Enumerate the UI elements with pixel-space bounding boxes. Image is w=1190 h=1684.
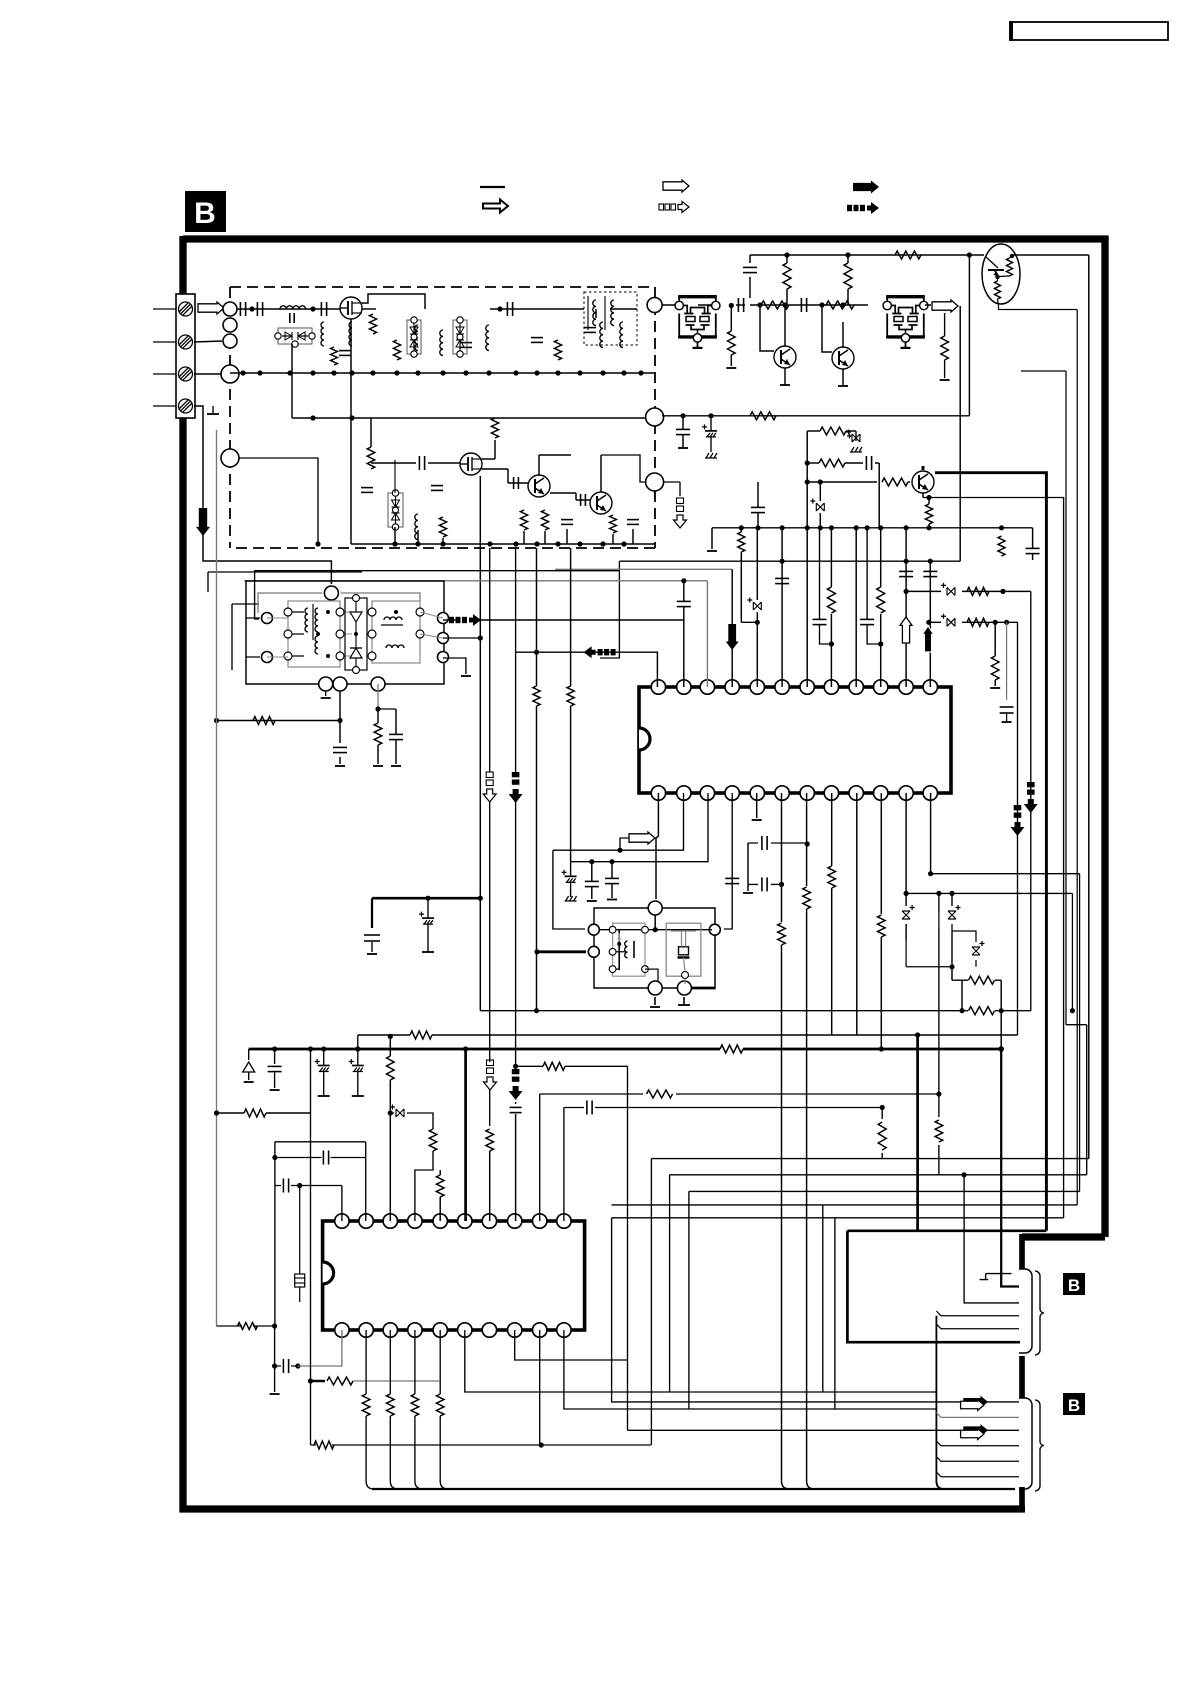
junction bbox=[936, 891, 941, 896]
wire r38 bbox=[994, 622, 996, 656]
junction bbox=[959, 1008, 964, 1013]
wire v515 long bbox=[515, 548, 517, 1104]
junction bbox=[878, 525, 883, 530]
junction bbox=[440, 370, 445, 375]
conn1 line hook bbox=[980, 1274, 1012, 1280]
junction bbox=[534, 370, 539, 375]
wire r47b bbox=[880, 937, 882, 1049]
inductor L9 bbox=[415, 514, 418, 540]
wire q5 emit bbox=[784, 368, 786, 385]
inductor L4 bbox=[415, 325, 418, 351]
wire row463 bbox=[807, 462, 819, 464]
junction bbox=[926, 495, 931, 500]
junction bbox=[440, 541, 445, 546]
junction bbox=[214, 718, 219, 723]
wire v1072 drop bbox=[1071, 893, 1073, 1010]
junction bbox=[310, 370, 315, 375]
capacitor C11 bbox=[361, 487, 373, 489]
resistor R54 bbox=[436, 1175, 444, 1197]
junction bbox=[949, 964, 954, 969]
IC2 pin 17 (bottom) bbox=[408, 1323, 422, 1337]
IC2 pin 8 (top) bbox=[508, 1214, 522, 1228]
wire r45b bbox=[807, 909, 815, 1489]
wire Q2 gate bbox=[440, 462, 460, 464]
wire c44 bbox=[748, 883, 782, 885]
junction bbox=[926, 525, 931, 530]
wire y1113 row bbox=[217, 1112, 245, 1114]
wire bus A y1035 bbox=[358, 1034, 1018, 1036]
wire pin8 riser bbox=[830, 528, 832, 587]
junction bbox=[617, 848, 622, 853]
wire screw4 link bbox=[194, 406, 203, 440]
node E bbox=[646, 408, 664, 426]
resistor R9 bbox=[541, 510, 548, 530]
junction bbox=[287, 370, 292, 375]
conn1 line 4 bbox=[936, 1311, 1019, 1316]
wire r61 grey bbox=[353, 1380, 439, 1382]
junction bbox=[589, 859, 594, 864]
hatch c25 bbox=[852, 434, 860, 442]
wire h3 nest bbox=[689, 1190, 1080, 1192]
wire y1157 row bbox=[275, 1157, 366, 1159]
junction bbox=[936, 1091, 941, 1096]
wire v882 res bbox=[881, 1108, 883, 1159]
wire y893 952 bbox=[951, 893, 953, 906]
wire y415 row bbox=[662, 415, 969, 417]
wire p12 drop bbox=[1017, 622, 1019, 1035]
conn2 line 3 bbox=[628, 1429, 1020, 1431]
junction bbox=[818, 479, 823, 484]
junction bbox=[1004, 620, 1009, 625]
junction bbox=[904, 559, 909, 564]
IC2 pin 19 (bottom) bbox=[359, 1323, 373, 1337]
capacitor C4 bbox=[339, 350, 351, 352]
capacitor C30 bbox=[677, 600, 691, 602]
junction bbox=[780, 559, 785, 564]
IC1 pin 22 (bottom) bbox=[700, 786, 714, 800]
IC1 pin 24 (bottom) bbox=[651, 786, 665, 800]
polarized cap D6 bbox=[947, 587, 955, 595]
wire p11 drop bbox=[1030, 591, 1032, 1010]
wire R5 top bbox=[370, 418, 372, 447]
electrolytic C23 bbox=[710, 416, 712, 431]
capacitor C43 bbox=[761, 836, 763, 850]
wire y620 row bbox=[481, 619, 684, 621]
junction bbox=[782, 302, 787, 307]
electrolytic C46 bbox=[323, 1049, 325, 1066]
wire c30 bbox=[683, 581, 685, 601]
capacitor C40 bbox=[585, 880, 599, 882]
wire blkA inner bbox=[267, 612, 443, 657]
polarized cap D10 bbox=[948, 905, 961, 919]
wire pin7b riser bbox=[806, 793, 808, 886]
wire v917 thick bbox=[916, 1035, 919, 1231]
junction bbox=[609, 859, 614, 864]
resistor R43 bbox=[533, 686, 540, 706]
wire q8 emitter bbox=[922, 493, 924, 498]
IC1 pin 17 (bottom) bbox=[824, 786, 838, 800]
IC1 pin 8 (top) bbox=[824, 680, 838, 694]
wire pin1b bbox=[656, 793, 658, 899]
capacitor C49 bbox=[322, 1151, 324, 1165]
wire v274 drop bbox=[274, 1326, 276, 1392]
wire oval right bbox=[1012, 254, 1089, 256]
capacitor C36 bbox=[1000, 706, 1014, 708]
wire p11b2 bbox=[905, 924, 907, 940]
junction bbox=[805, 479, 810, 484]
junction bbox=[534, 949, 539, 954]
IC1 pin 1 (top) bbox=[651, 680, 665, 694]
junction bbox=[1070, 1008, 1075, 1013]
wire v372 thick bbox=[371, 898, 373, 928]
wire grey c36 bbox=[1006, 622, 1008, 700]
inductor L2 bbox=[321, 322, 324, 346]
ground bus end bbox=[711, 528, 713, 549]
signal arrow down on p12 drop bbox=[1014, 805, 1022, 810]
wire y1066 row bbox=[516, 1065, 628, 1067]
capacitor C9 bbox=[584, 327, 596, 329]
resistor R1 bbox=[331, 347, 338, 365]
capacitor C15 bbox=[561, 519, 573, 521]
wire v1077 drop bbox=[1076, 310, 1078, 1205]
resistor R51 bbox=[387, 1056, 395, 1080]
detector diodes D8 bbox=[345, 598, 367, 670]
signal arrow down on p11 drop bbox=[1027, 782, 1035, 787]
node stack 3 bbox=[223, 334, 237, 348]
wire v1086 top bbox=[1086, 1025, 1088, 1175]
CN1 screw terminal 3 bbox=[179, 367, 193, 381]
wire pin12 riser bbox=[929, 561, 931, 687]
CN1 screw terminal 1 bbox=[179, 302, 193, 316]
wire p11 net bbox=[906, 590, 941, 592]
resistor R38 bbox=[991, 656, 999, 680]
wire Q1 drain top bbox=[362, 294, 425, 309]
resistor R58 bbox=[878, 1122, 886, 1150]
ground q5 bbox=[780, 384, 790, 386]
resistor R32 bbox=[998, 536, 1005, 556]
node blkB bot2 bbox=[677, 981, 691, 995]
op-amp IC1 body bbox=[639, 687, 951, 793]
wire r28 bbox=[845, 462, 863, 464]
junction bbox=[321, 1046, 326, 1051]
wire v669 nest bbox=[669, 1175, 671, 1392]
IC2 pin 11 (bottom) bbox=[557, 1323, 571, 1337]
junction bbox=[308, 1378, 313, 1383]
IC2 pin 5 (top) bbox=[433, 1214, 447, 1228]
junction bbox=[216, 1325, 218, 1327]
wire pin11b riser bbox=[905, 793, 907, 906]
wire v688 nest bbox=[688, 1191, 690, 1409]
wire pin3b drop2 bbox=[390, 1330, 398, 1489]
FET Q1 bbox=[340, 297, 362, 319]
wire IF row bbox=[662, 304, 679, 306]
wire p3 drop grey bbox=[377, 684, 379, 709]
junction bbox=[904, 891, 909, 896]
junction bbox=[928, 559, 933, 564]
wire pin5 riser bbox=[756, 528, 758, 600]
wire y1107 row bbox=[564, 1107, 882, 1109]
resistor R25 bbox=[895, 251, 921, 259]
conn2 line 5 bbox=[936, 1457, 1019, 1462]
varactor block D2 bbox=[407, 320, 421, 354]
wire d14 net bbox=[415, 1151, 433, 1221]
wire blkB thick bot bbox=[691, 987, 715, 990]
junction bbox=[600, 541, 605, 546]
wire v1090 bbox=[1088, 255, 1090, 1159]
IC1 pin 7 (top) bbox=[800, 680, 814, 694]
capacitor C16 bbox=[627, 519, 639, 521]
junction bbox=[878, 641, 883, 646]
node blkA bot3 bbox=[371, 677, 385, 691]
wire pin10b riser bbox=[880, 793, 882, 914]
resistor R10 bbox=[610, 515, 617, 533]
resistor R26 bbox=[750, 412, 776, 420]
wire pin6b riser bbox=[781, 793, 783, 922]
wire c32 link bbox=[820, 528, 832, 644]
junction bbox=[998, 1046, 1004, 1052]
wire y873 row bbox=[931, 873, 1080, 875]
section label B (connector CN3) bbox=[1063, 1393, 1085, 1415]
capacitor C24 bbox=[676, 428, 690, 430]
wire v808 column bbox=[806, 431, 808, 687]
resistor R37 bbox=[967, 618, 989, 626]
signal arrow down sq (node F) bbox=[677, 498, 684, 504]
node blkB right bbox=[709, 924, 720, 935]
wire v651 nest bbox=[650, 1159, 652, 1445]
wire r44b bbox=[782, 945, 790, 1489]
junction bbox=[779, 882, 784, 887]
wire pin4 riser bbox=[731, 569, 733, 687]
wire r48 links bbox=[952, 979, 1001, 981]
ground c41 bbox=[565, 896, 577, 901]
wire c29 bbox=[1032, 528, 1034, 548]
wire pin3 riser grey bbox=[706, 581, 708, 687]
resistor R5 bbox=[367, 447, 375, 469]
riser x936 conn bbox=[936, 1316, 944, 1489]
inductor L1 bbox=[280, 306, 306, 309]
conn2 arrow 1 bbox=[963, 1396, 988, 1408]
mpx arrow out bbox=[469, 614, 481, 626]
junction bbox=[392, 541, 397, 546]
wire y1141 row bbox=[275, 1141, 366, 1143]
wire h6 nest thick bbox=[847, 1229, 1046, 1232]
polarized cap D7 bbox=[947, 618, 955, 626]
wire q6 base bbox=[822, 305, 832, 352]
op-amp IC2 body bbox=[323, 1221, 585, 1330]
wire blkB thick feed bbox=[537, 950, 586, 953]
junction bbox=[600, 370, 605, 375]
resistor R24 bbox=[844, 263, 852, 289]
wire pin11 riser bbox=[905, 528, 907, 687]
wire grey y569 bbox=[555, 568, 732, 570]
wire c27 bbox=[819, 482, 821, 501]
junction bbox=[388, 1110, 393, 1115]
wire blk bottom bbox=[341, 1186, 343, 1222]
junction bbox=[513, 370, 518, 375]
oscillator dotted box bbox=[584, 292, 637, 345]
wire pin10 riser bbox=[880, 528, 882, 587]
conn2 line 2 bbox=[936, 1413, 1019, 1418]
wire y1445 row bbox=[311, 1444, 651, 1446]
resistor R57 bbox=[647, 1090, 673, 1098]
wire c53x bbox=[275, 1365, 298, 1367]
capacitor C38 bbox=[389, 733, 403, 735]
wire pin9b route bbox=[539, 1330, 541, 1445]
transistor Q6 bbox=[832, 347, 854, 369]
junction bbox=[331, 370, 336, 375]
node B (gnd in) bbox=[221, 365, 239, 383]
capacitor C53 bbox=[282, 1359, 284, 1373]
junction bbox=[513, 1064, 518, 1069]
junction bbox=[638, 370, 643, 375]
wire v297 to1366 bbox=[297, 1270, 299, 1366]
wire v938 res bbox=[938, 927, 940, 1175]
IC2 pin 20 (bottom) bbox=[335, 1323, 349, 1337]
title box (top right) bbox=[1011, 22, 1168, 40]
ground c23 bbox=[705, 453, 717, 458]
IC2 pin 2 (top) bbox=[359, 1214, 373, 1228]
wire v310 bbox=[310, 1340, 312, 1445]
resistor R22 bbox=[728, 331, 736, 355]
wire gnd bus (front-end) bbox=[230, 372, 655, 374]
wire q2 drain bbox=[482, 458, 495, 460]
junction bbox=[478, 635, 483, 640]
node D (IF out) bbox=[647, 298, 662, 313]
resistor R7 bbox=[491, 418, 498, 438]
wire r22 bbox=[730, 306, 732, 332]
wire y570 row bbox=[255, 571, 620, 619]
wire blkA out bbox=[443, 619, 456, 621]
resistor R42 bbox=[567, 686, 574, 706]
wire q5 collector bbox=[784, 305, 786, 346]
wire r29 q bbox=[908, 481, 910, 483]
junction bbox=[539, 1442, 544, 1447]
wire v480 top bbox=[479, 476, 481, 544]
wire supply bus y527 bbox=[712, 527, 1033, 529]
wire c28 bbox=[757, 482, 759, 507]
wire y966 link bbox=[906, 931, 952, 967]
capacitor C20 bbox=[737, 298, 739, 312]
wire bus B y1049 thick bbox=[249, 1048, 1002, 1051]
resistor R34 bbox=[827, 587, 835, 613]
junction bbox=[805, 525, 810, 530]
conn2 line 6 bbox=[936, 1472, 1019, 1477]
junction bbox=[425, 896, 430, 901]
wire pin12b riser bbox=[930, 793, 932, 874]
resistor R67 bbox=[935, 1120, 943, 1142]
IC2 pin 9 (top) bbox=[533, 1214, 547, 1228]
wire c51b bbox=[515, 1114, 517, 1221]
detector transformer T2 bbox=[288, 601, 340, 667]
capacitor C7 bbox=[506, 302, 508, 316]
wire v536 bbox=[536, 548, 538, 686]
wire v299 crystal bbox=[299, 1186, 301, 1275]
wire osc link bbox=[595, 309, 597, 318]
node blkA bot1 bbox=[319, 677, 333, 691]
node blkB top bbox=[648, 901, 662, 915]
conn1 line 2 thick bbox=[1001, 1049, 1019, 1287]
wire d10 link bbox=[906, 893, 952, 966]
resistor R28 bbox=[819, 459, 845, 467]
wire pin5b gnd bbox=[756, 793, 758, 818]
junction bbox=[879, 1046, 884, 1051]
wire h4 nest bbox=[612, 1204, 1078, 1206]
IC1 pin 10 (top) bbox=[874, 680, 888, 694]
wire c38 bbox=[395, 709, 397, 734]
varactor block D3 bbox=[453, 320, 467, 354]
legend wire sample bbox=[480, 186, 505, 188]
wire v619 bbox=[600, 561, 619, 658]
wire screw2 link bbox=[194, 341, 222, 342]
connector CN1 strip bbox=[176, 294, 195, 418]
wire blkA nest loop bbox=[208, 572, 362, 670]
legend arrow squares black bbox=[867, 202, 879, 214]
junction bbox=[880, 1105, 885, 1110]
junction bbox=[854, 525, 859, 530]
varactor block D4 bbox=[388, 493, 403, 527]
wire osc row bbox=[490, 308, 584, 310]
wire bus y1010 bbox=[480, 1010, 1031, 1012]
IC1 pin 5 (top) bbox=[750, 680, 764, 694]
wire pin9 riser bbox=[855, 528, 857, 687]
wire y561 row bbox=[619, 560, 960, 562]
IC1 pin 3 (top) bbox=[700, 680, 714, 694]
IC1 pin 18 (bottom) bbox=[800, 786, 814, 800]
detector block A outline bbox=[246, 581, 444, 684]
wire r41b bbox=[377, 709, 379, 723]
wire r27 row bbox=[807, 430, 820, 432]
junction bbox=[577, 541, 582, 546]
ceramic resonator X1 bbox=[666, 923, 701, 976]
wire pin2b riser bbox=[620, 793, 684, 850]
resistor R40 bbox=[253, 717, 275, 725]
junction bbox=[577, 370, 582, 375]
resistor R2 bbox=[369, 314, 376, 334]
wire r24 bbox=[847, 255, 849, 263]
junction bbox=[415, 370, 420, 375]
wire pin8b route bbox=[515, 1330, 628, 1360]
capacitor C26 bbox=[865, 456, 867, 470]
detector block B outline bbox=[594, 908, 715, 988]
junction bbox=[555, 370, 560, 375]
wire pin1 link bbox=[516, 652, 658, 687]
section label B (top left) bbox=[185, 191, 226, 232]
resistor R31 bbox=[738, 532, 745, 552]
capacitor C52 bbox=[586, 1101, 588, 1115]
IC1 pin 4 (top) bbox=[725, 680, 739, 694]
junction bbox=[337, 718, 342, 723]
inductor L3 bbox=[349, 322, 352, 346]
wire c22 bbox=[749, 255, 751, 263]
transistor Q4 bbox=[590, 492, 612, 514]
resistor R20 bbox=[761, 301, 789, 309]
wire v563 riser bbox=[563, 1108, 565, 1222]
page border frame bbox=[183, 239, 1105, 1237]
conn1 line 3 bbox=[964, 1175, 1019, 1303]
resistor R53 bbox=[429, 1129, 437, 1151]
capacitor C12 bbox=[431, 485, 443, 487]
resistor R46 bbox=[828, 866, 836, 888]
wire q6 collector bbox=[842, 322, 844, 347]
junction bbox=[739, 525, 744, 530]
connector CN3 outline bbox=[1019, 1398, 1032, 1489]
IC2 pin 3 (top) bbox=[383, 1214, 397, 1228]
legend arrow outline bbox=[663, 180, 689, 192]
transistor Q5 bbox=[774, 346, 796, 368]
svg-text:B: B bbox=[194, 197, 216, 230]
resistor R30 bbox=[925, 504, 932, 524]
node blkB bot1 bbox=[648, 981, 662, 995]
